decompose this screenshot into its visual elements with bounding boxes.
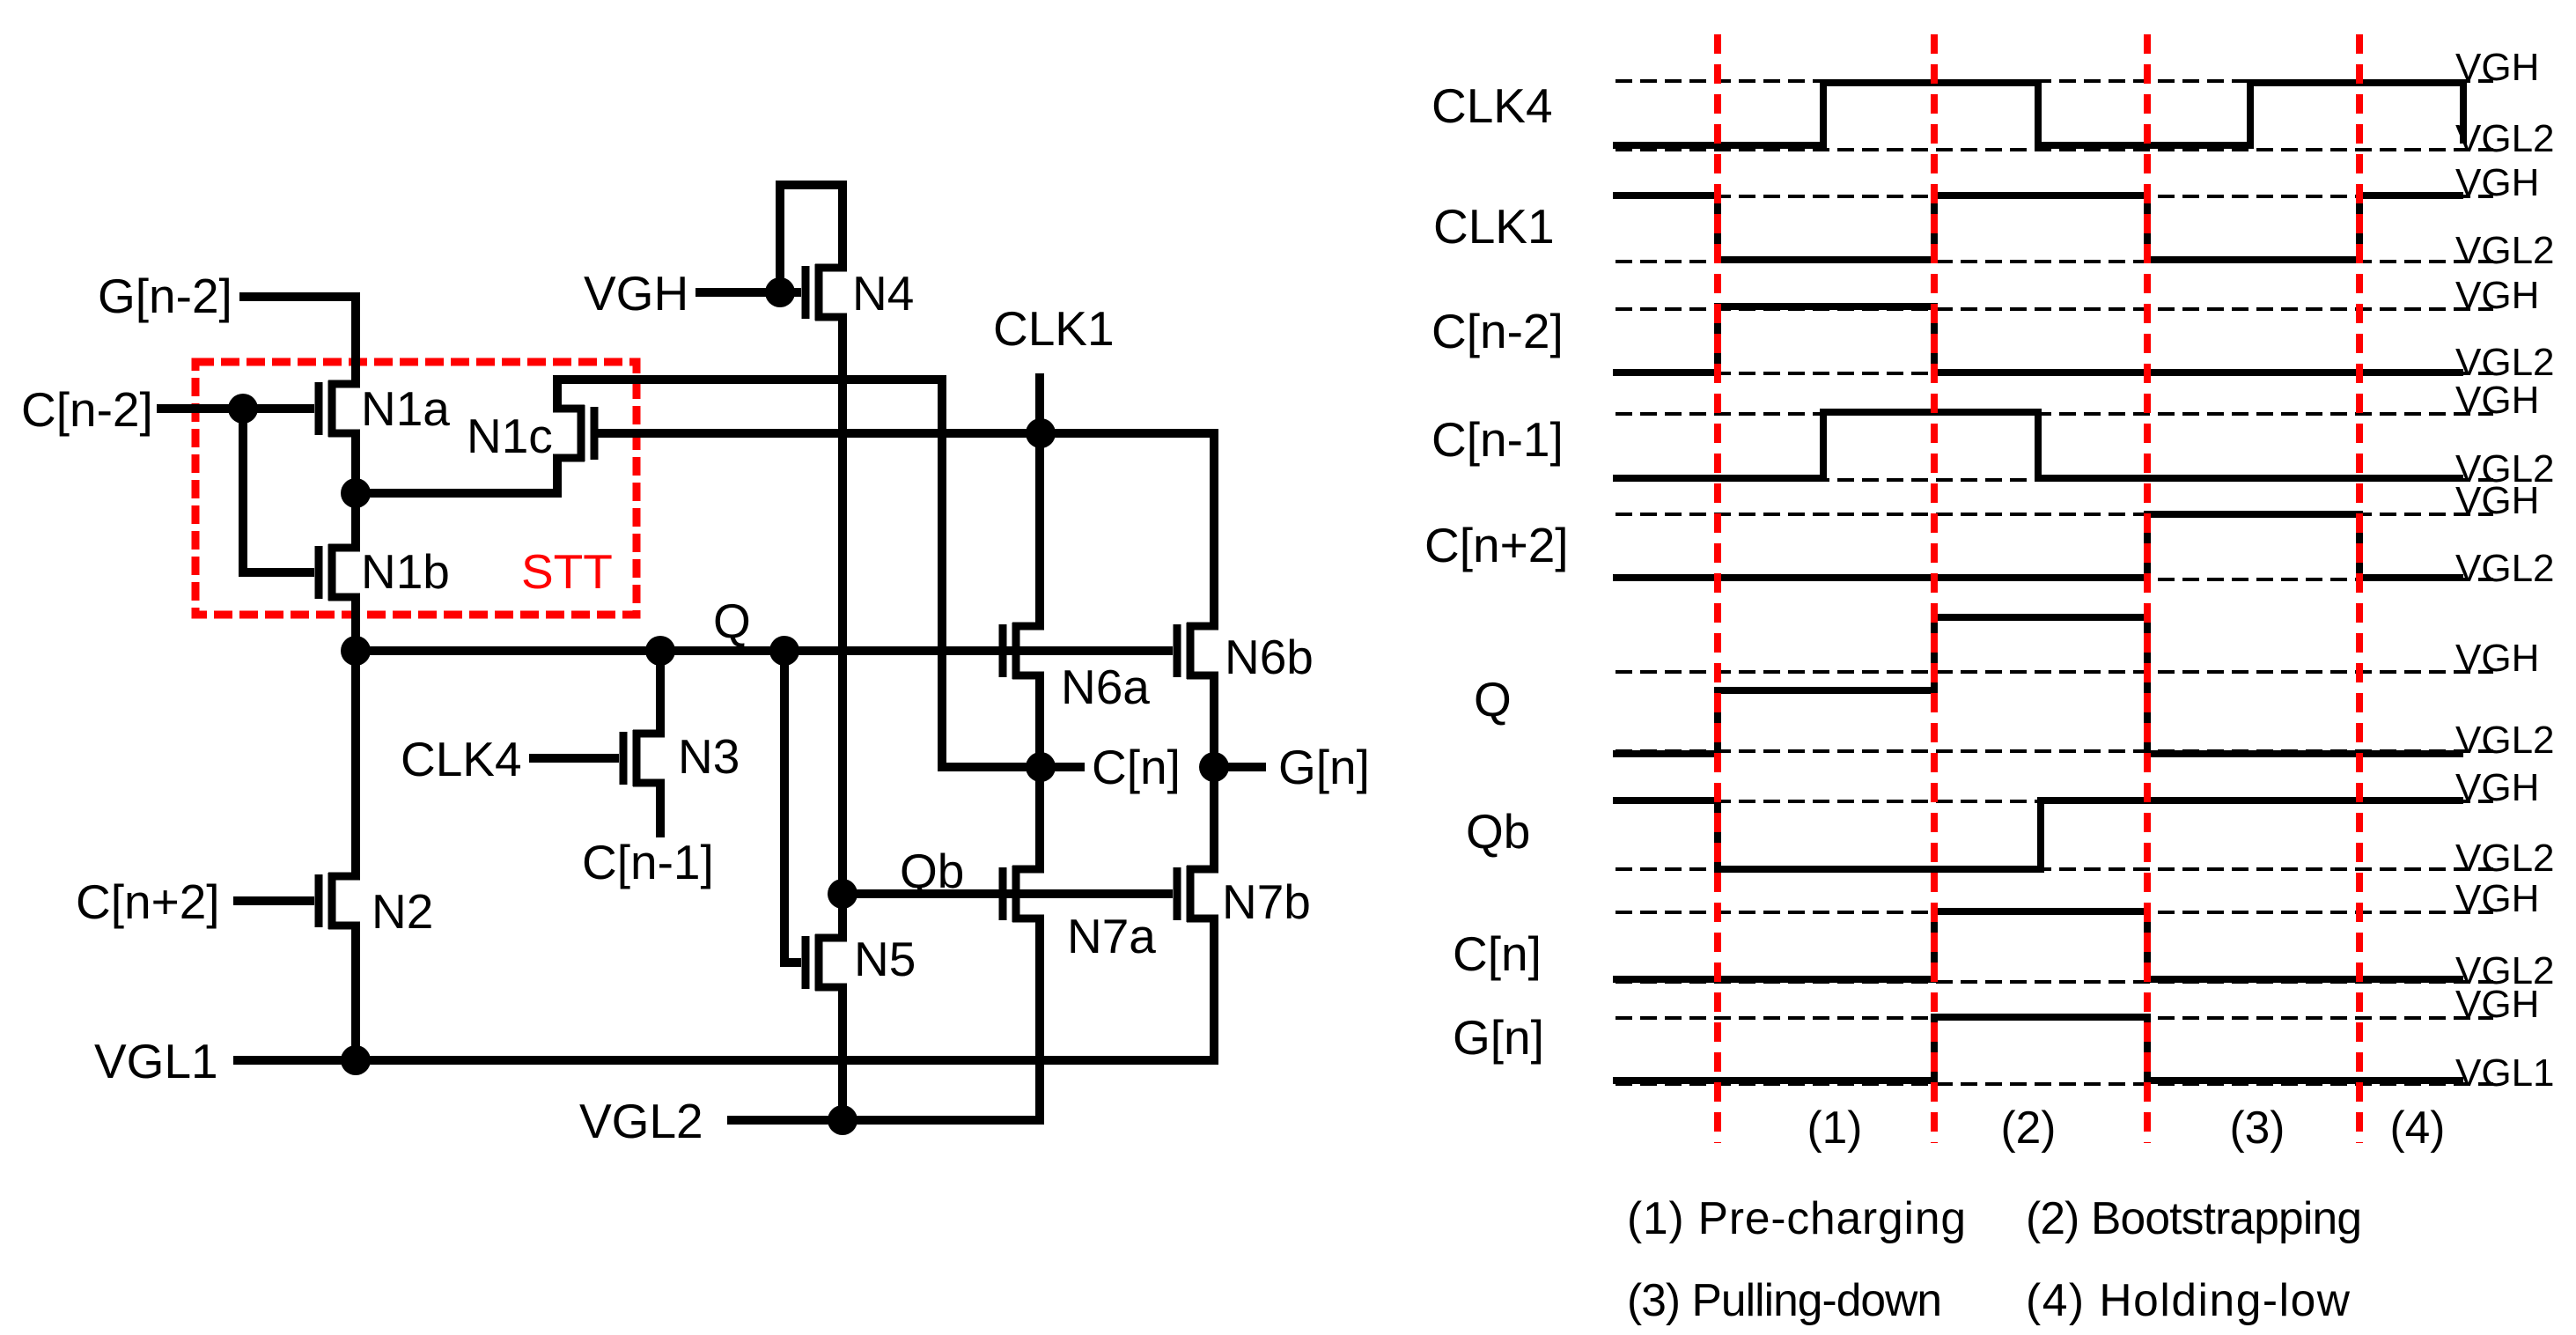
svg-text:(4): (4) bbox=[2390, 1102, 2446, 1153]
svg-text:N2: N2 bbox=[372, 884, 433, 939]
svg-text:CLK1: CLK1 bbox=[1433, 199, 1555, 254]
wire CLK4 lead bbox=[529, 754, 619, 763]
node dot G[n] bbox=[1199, 752, 1229, 782]
transistor N6a bbox=[1003, 623, 1044, 679]
waveform Qb bbox=[1613, 800, 2463, 869]
waveform G[n] bbox=[1613, 1017, 2463, 1081]
waveform CLK1 bbox=[1613, 195, 2463, 260]
wire C[n+2] lead bbox=[233, 896, 314, 905]
dashed level VGL2 Qb bbox=[1616, 867, 2493, 871]
svg-text:N4: N4 bbox=[852, 266, 914, 321]
node dot C[n] bbox=[1026, 752, 1056, 782]
waveform C[n+2] bbox=[1613, 514, 2463, 578]
wire Qb bbox=[843, 889, 1173, 898]
svg-text:(2) Bootstrapping: (2) Bootstrapping bbox=[2026, 1192, 2362, 1243]
wire VGH lead bbox=[696, 288, 801, 297]
wire rail mid1 bbox=[351, 432, 360, 549]
wire N7b drain rise bbox=[1210, 767, 1218, 869]
svg-text:(3): (3) bbox=[2230, 1102, 2285, 1153]
wire N4 source drop to Qb bbox=[838, 317, 847, 938]
wire CLK1 drop to N6a drain bbox=[1035, 373, 1044, 626]
dashed level VGH G[n] bbox=[1616, 1016, 2493, 1020]
svg-text:VGL1: VGL1 bbox=[2455, 1051, 2555, 1095]
svg-text:C[n-1]: C[n-1] bbox=[582, 835, 714, 889]
svg-text:(4) Holding-low: (4) Holding-low bbox=[2026, 1274, 2351, 1325]
transistor N2 bbox=[319, 873, 360, 929]
svg-text:N1c: N1c bbox=[467, 409, 553, 463]
wire C[n] stub bbox=[1055, 763, 1085, 771]
svg-text:CLK1: CLK1 bbox=[993, 301, 1115, 356]
svg-text:VGH: VGH bbox=[2455, 274, 2539, 317]
transistor N3 bbox=[623, 730, 665, 786]
node dot VGL1/N2 bbox=[341, 1045, 371, 1075]
waveform C[n-2] bbox=[1613, 306, 2463, 372]
dashed level VGH CLK4 bbox=[1616, 79, 2493, 83]
svg-text:VGH: VGH bbox=[2455, 877, 2539, 920]
svg-text:C[n-1]: C[n-1] bbox=[1432, 412, 1564, 467]
svg-text:N1a: N1a bbox=[361, 381, 450, 436]
dashed level VGH C[n-2] bbox=[1616, 307, 2493, 311]
dashed level VGH C[n+2] bbox=[1616, 513, 2493, 516]
dashed level VGL2 Q bbox=[1616, 749, 2493, 753]
dashed level VGL1 G[n] bbox=[1616, 1082, 2493, 1086]
dashed level VGL2 C[n+2] bbox=[1616, 578, 2493, 581]
svg-text:VGH: VGH bbox=[2455, 766, 2539, 809]
wire N5 gate branch from Q bbox=[784, 651, 801, 963]
wire rail bottom bbox=[351, 925, 360, 1060]
svg-text:(1) Pre-charging: (1) Pre-charging bbox=[1627, 1192, 1966, 1243]
wire VGL2 rail bbox=[727, 1116, 1044, 1125]
transistor N5 bbox=[806, 934, 847, 991]
wire N1c drain to C[n] bbox=[557, 380, 1041, 767]
wire N1c source to node A bbox=[356, 456, 557, 493]
svg-text:N1b: N1b bbox=[361, 544, 450, 599]
svg-text:VGH: VGH bbox=[584, 266, 688, 321]
node dot Qb bbox=[828, 879, 857, 909]
svg-text:C[n-2]: C[n-2] bbox=[21, 382, 153, 437]
wire N3 source stub bbox=[656, 783, 665, 837]
dashed level VGL2 C[n-2] bbox=[1616, 372, 2493, 375]
dashed level VGH C[n] bbox=[1616, 911, 2493, 914]
svg-text:C[n+2]: C[n+2] bbox=[76, 874, 220, 929]
svg-text:C[n+2]: C[n+2] bbox=[1424, 518, 1569, 572]
svg-text:(2): (2) bbox=[2001, 1102, 2057, 1153]
wire VGL1 rail bbox=[233, 1056, 1218, 1065]
svg-text:Qb: Qb bbox=[1466, 804, 1530, 859]
svg-text:VGL2: VGL2 bbox=[2455, 117, 2555, 160]
waveform C[n] bbox=[1613, 911, 2463, 979]
svg-text:STT: STT bbox=[521, 544, 613, 599]
svg-text:Q: Q bbox=[1474, 672, 1512, 727]
wire N7a drain rise bbox=[1035, 767, 1044, 869]
transistor N4 bbox=[806, 264, 847, 321]
svg-text:VGH: VGH bbox=[2455, 379, 2539, 422]
wire N6a source drop to C[n] bbox=[1035, 675, 1044, 767]
svg-text:C[n]: C[n] bbox=[1453, 926, 1542, 981]
svg-text:G[n]: G[n] bbox=[1278, 740, 1370, 794]
svg-text:VGL2: VGL2 bbox=[2455, 719, 2555, 762]
node dot VGL2/N5 bbox=[828, 1105, 857, 1135]
svg-text:VGL2: VGL2 bbox=[579, 1094, 703, 1148]
svg-text:VGH: VGH bbox=[2455, 983, 2539, 1026]
node dot Q/N3 bbox=[645, 636, 675, 666]
red phase line 2 bbox=[1931, 34, 1938, 1143]
svg-text:(1): (1) bbox=[1807, 1102, 1863, 1153]
dashed level VGL2 C[n-1] bbox=[1616, 478, 2493, 482]
node dot Q rail bbox=[341, 636, 371, 666]
svg-text:G[n]: G[n] bbox=[1453, 1010, 1544, 1065]
waveform C[n-1] bbox=[1613, 412, 2463, 478]
svg-text:N6a: N6a bbox=[1061, 660, 1150, 714]
node dot Q/N5 gate bbox=[769, 636, 799, 666]
red phase line 4 bbox=[2356, 34, 2363, 1143]
svg-text:VGH: VGH bbox=[2455, 46, 2539, 89]
dashed level VGH Q bbox=[1616, 670, 2493, 674]
svg-text:CLK4: CLK4 bbox=[1432, 78, 1553, 133]
svg-text:G[n-2]: G[n-2] bbox=[98, 269, 232, 323]
svg-text:C[n]: C[n] bbox=[1092, 740, 1181, 794]
red dashed box STT bbox=[195, 362, 637, 615]
node dot CLK1/N1c gate bbox=[1026, 418, 1056, 448]
waveform CLK4 bbox=[1613, 83, 2463, 145]
dashed level VGH Qb bbox=[1616, 800, 2493, 803]
wire N5 source drop to VGL2 bbox=[838, 987, 847, 1120]
wire C[n-2] branch to N1b gate bbox=[243, 409, 314, 572]
transistor N1c (gate right) bbox=[553, 405, 594, 461]
svg-text:VGL2: VGL2 bbox=[2455, 229, 2555, 272]
svg-text:VGL1: VGL1 bbox=[94, 1034, 218, 1088]
wire N7a source drop bbox=[1035, 918, 1044, 1120]
transistor N7b bbox=[1177, 866, 1218, 922]
svg-text:Qb: Qb bbox=[900, 844, 964, 898]
wire G[n] stub bbox=[1228, 763, 1266, 771]
red phase line 3 bbox=[2144, 34, 2151, 1143]
dashed level VGL2 C[n] bbox=[1616, 980, 2493, 984]
wire N6b source drop to G[n] bbox=[1210, 675, 1218, 767]
wire N7b source drop bbox=[1210, 918, 1218, 1060]
dashed level VGH CLK1 bbox=[1616, 195, 2493, 198]
transistor N7a bbox=[1003, 866, 1044, 922]
red phase line 1 bbox=[1714, 34, 1721, 1143]
dashed level VGL2 CLK1 bbox=[1616, 260, 2493, 263]
node dot C[n-2] branch bbox=[228, 394, 258, 424]
svg-text:C[n-2]: C[n-2] bbox=[1432, 304, 1564, 358]
svg-text:N3: N3 bbox=[678, 729, 740, 784]
wire N1c gate to CLK1 and N6b drain bbox=[598, 433, 1214, 626]
svg-text:VGH: VGH bbox=[2455, 479, 2539, 522]
svg-text:VGH: VGH bbox=[2455, 161, 2539, 204]
transistor N6b bbox=[1177, 623, 1218, 679]
svg-text:VGL2: VGL2 bbox=[2455, 547, 2555, 590]
wire N3 drain bbox=[656, 651, 665, 734]
wire rail mid2 bbox=[351, 596, 360, 877]
svg-text:CLK4: CLK4 bbox=[401, 732, 522, 786]
wire C[n-2] lead bbox=[157, 404, 314, 413]
svg-text:VGL2: VGL2 bbox=[2455, 341, 2555, 384]
svg-text:N5: N5 bbox=[854, 932, 916, 986]
dashed level VGH C[n-1] bbox=[1616, 412, 2493, 416]
wire N4 diode loop bbox=[780, 185, 843, 292]
svg-text:(3) Pulling-down: (3) Pulling-down bbox=[1627, 1274, 1942, 1325]
waveform Q bbox=[1613, 617, 2463, 754]
svg-text:N7b: N7b bbox=[1222, 874, 1311, 929]
svg-text:N6b: N6b bbox=[1225, 630, 1314, 684]
svg-text:Q: Q bbox=[713, 594, 751, 648]
svg-text:VGH: VGH bbox=[2455, 637, 2539, 680]
wire Q bbox=[356, 646, 1173, 655]
svg-text:VGL2: VGL2 bbox=[2455, 837, 2555, 880]
dashed level VGL2 CLK4 bbox=[1616, 148, 2493, 151]
node dot VGH/N4 gate bbox=[765, 277, 795, 307]
wire G[n-2] lead and rail top bbox=[239, 297, 356, 385]
node dot A (N1a/N1b/N1c) bbox=[341, 478, 371, 508]
svg-text:N7a: N7a bbox=[1067, 909, 1156, 963]
transistor N1b bbox=[319, 544, 360, 601]
transistor N1a bbox=[319, 380, 360, 437]
